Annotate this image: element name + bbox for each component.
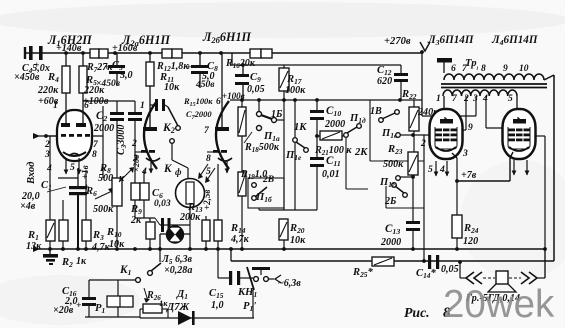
svg-text:₁: ₁ bbox=[476, 60, 479, 70]
svg-text:1,0: 1,0 bbox=[211, 300, 224, 311]
svg-text:К: К bbox=[163, 163, 173, 175]
svg-text:2: 2 bbox=[420, 138, 426, 149]
svg-text:10к: 10к bbox=[109, 239, 125, 250]
svg-text:4: 4 bbox=[439, 164, 445, 175]
svg-text:+1в: +1в bbox=[80, 165, 90, 179]
svg-text:ф: ф bbox=[175, 167, 182, 177]
svg-text:Д7Ж: Д7Ж bbox=[166, 302, 190, 313]
svg-text:450в: 450в bbox=[195, 79, 215, 90]
svg-text:+: + bbox=[104, 62, 110, 73]
svg-text:8: 8 bbox=[481, 63, 486, 74]
svg-text:×450в: ×450в bbox=[14, 72, 40, 83]
svg-text:+270в: +270в bbox=[384, 36, 411, 47]
svg-text:1: 1 bbox=[140, 100, 145, 111]
svg-text:0,01: 0,01 bbox=[322, 169, 340, 180]
svg-text:120: 120 bbox=[463, 236, 478, 247]
svg-text:8: 8 bbox=[206, 153, 211, 164]
svg-text:+: + bbox=[34, 60, 40, 71]
svg-text:к: к bbox=[119, 173, 125, 184]
svg-text:Л2а​6Н1П: Л2а​6Н1П bbox=[121, 33, 171, 48]
svg-text:620: 620 bbox=[377, 76, 392, 87]
svg-text:0,03: 0,03 bbox=[154, 198, 171, 209]
svg-text:5: 5 bbox=[206, 166, 211, 177]
svg-text:3: 3 bbox=[462, 148, 468, 159]
svg-text:4: 4 bbox=[141, 166, 147, 177]
svg-text:10: 10 bbox=[519, 63, 529, 74]
svg-text:2000: 2000 bbox=[93, 123, 114, 134]
svg-text:1К: 1К bbox=[294, 122, 307, 133]
svg-text:×450в: ×450в bbox=[96, 78, 121, 89]
svg-text:20wek: 20wek bbox=[443, 283, 555, 326]
svg-text:2В: 2В bbox=[262, 174, 274, 185]
svg-text:×20в: ×20в bbox=[53, 305, 74, 316]
svg-text:R21​100 к: R21​100 к bbox=[314, 145, 352, 157]
svg-text:1к: 1к bbox=[76, 256, 87, 267]
svg-text:×0,28а: ×0,28а bbox=[164, 265, 192, 276]
svg-text:500к: 500к bbox=[93, 204, 114, 215]
svg-text:4,7к: 4,7к bbox=[91, 242, 111, 253]
svg-text:6: 6 bbox=[451, 63, 456, 74]
svg-text:3: 3 bbox=[472, 93, 478, 104]
svg-text:4: 4 bbox=[46, 163, 52, 174]
svg-text:1: 1 bbox=[436, 93, 441, 104]
svg-text:4,7к: 4,7к bbox=[230, 234, 250, 245]
svg-text:2000: 2000 bbox=[380, 237, 401, 248]
svg-text:5,0: 5,0 bbox=[120, 70, 133, 81]
svg-text:220к: 220к bbox=[37, 85, 59, 96]
svg-text:5: 5 bbox=[508, 93, 513, 104]
svg-text:×20в: ×20в bbox=[131, 155, 141, 172]
svg-text:9: 9 bbox=[468, 122, 473, 133]
svg-text:~6,3в: ~6,3в bbox=[278, 278, 301, 289]
svg-text:R16​20к: R16​20к bbox=[225, 58, 256, 70]
svg-text:0,05: 0,05 bbox=[247, 84, 265, 95]
svg-text:6: 6 bbox=[216, 96, 221, 107]
svg-text:R18​500к: R18​500к bbox=[244, 142, 280, 154]
svg-text:+: + bbox=[186, 62, 192, 73]
svg-text:2к: 2к bbox=[130, 215, 142, 226]
svg-text:1Б: 1Б bbox=[271, 109, 283, 120]
svg-text:500к: 500к bbox=[383, 159, 404, 170]
svg-text:4: 4 bbox=[482, 93, 488, 104]
svg-text:Л1​6Н2П: Л1​6Н2П bbox=[47, 33, 92, 48]
svg-text:5: 5 bbox=[70, 162, 75, 173]
svg-text:10к: 10к bbox=[164, 82, 180, 93]
svg-text:100к: 100к bbox=[285, 85, 306, 96]
svg-text:200к: 200к bbox=[179, 212, 201, 223]
svg-text:8: 8 bbox=[92, 149, 97, 160]
svg-text:Вход: Вход bbox=[26, 162, 37, 185]
svg-text:1: 1 bbox=[53, 100, 58, 111]
svg-text:2000: 2000 bbox=[324, 119, 345, 130]
svg-text:+2,5в: +2,5в bbox=[202, 190, 212, 210]
svg-text:2К: 2К bbox=[354, 147, 368, 158]
svg-text:2Б: 2Б bbox=[384, 196, 397, 207]
svg-text:С3​3000: С3​3000 bbox=[116, 125, 128, 155]
svg-text:×4в: ×4в bbox=[20, 201, 36, 212]
svg-text:+7в: +7в bbox=[461, 170, 477, 181]
svg-text:3: 3 bbox=[44, 149, 50, 160]
svg-text:0,05: 0,05 bbox=[441, 264, 459, 275]
svg-text:10к: 10к bbox=[290, 235, 306, 246]
svg-text:Л3​6П14П: Л3​6П14П bbox=[427, 34, 474, 47]
svg-text:6: 6 bbox=[84, 100, 89, 111]
svg-text:Л4​6П14П: Л4​6П14П bbox=[491, 34, 538, 47]
svg-text:5: 5 bbox=[428, 164, 433, 175]
svg-text:2: 2 bbox=[131, 138, 137, 149]
svg-text:9: 9 bbox=[503, 63, 508, 74]
svg-text:Л2б​6Н1П: Л2б​6Н1П bbox=[202, 30, 252, 45]
svg-text:500: 500 bbox=[98, 173, 113, 184]
svg-text:Рис.: Рис. bbox=[404, 305, 430, 320]
svg-text:1В: 1В bbox=[370, 106, 382, 117]
